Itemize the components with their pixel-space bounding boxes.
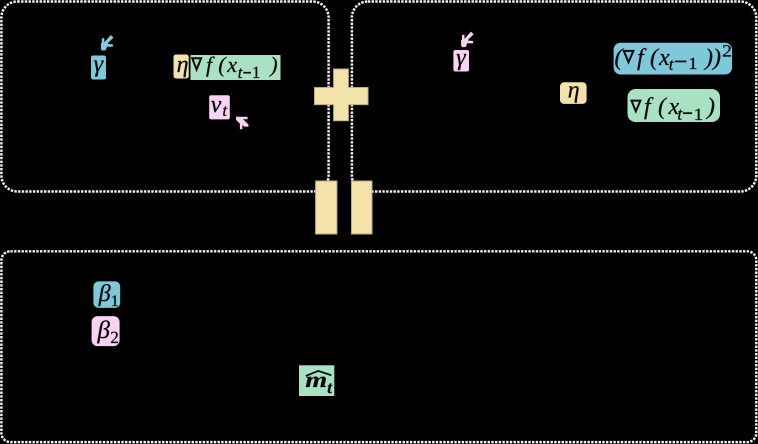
squared gradient rounded box (cyan, rmsprop): (nabla f(x_t-1))^2 (614, 43, 733, 75)
nabla glyph (630, 100, 642, 114)
beta1 rounded box (cyan, adam) (93, 281, 120, 308)
equals sign rotated (two tan vertical bars above adam panel) (316, 181, 372, 234)
eta highlight box (tan, momentum) (174, 55, 189, 79)
m-hat_t highlight box (green, adam) (299, 365, 334, 396)
panel rmsprop (top-right dashed rounded box) (352, 2, 756, 192)
nabla glyph (622, 50, 635, 65)
v_t highlight box (pink, momentum) (209, 95, 230, 119)
gamma highlight box (cyan, momentum) (91, 56, 106, 80)
panel adam (bottom dashed rounded box) (1, 251, 756, 442)
plus sign (tan cross between top panels) (315, 69, 369, 121)
hat over m (306, 371, 330, 376)
arrow southwest pink (points to gamma, rmsprop panel) (461, 32, 474, 48)
panel momentum (top-left dashed rounded box) (1, 2, 328, 192)
nabla glyph (191, 57, 203, 72)
gamma highlight box (pink, rmsprop) (453, 50, 469, 72)
gradient rounded box (green, rmsprop): nabla f(x_t-1) (628, 89, 721, 122)
arrow southwest cyan (points to gamma, momentum panel) (101, 35, 114, 51)
beta2 rounded box (pink, adam) (92, 316, 120, 346)
eta rounded box (tan, rmsprop) (560, 82, 587, 104)
gradient term highlight (green, momentum): nabla f(x_t-1) (191, 55, 281, 80)
arrow northwest head (pink cursor near v_t) (236, 117, 248, 130)
